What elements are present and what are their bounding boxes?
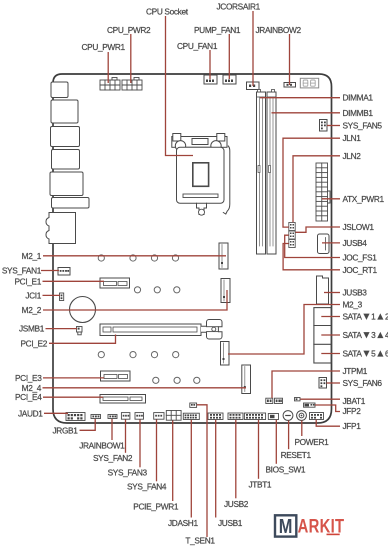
jumper JLN cluster (JLN1/JLN2) bbox=[289, 223, 295, 231]
wire JBAT1 bbox=[300, 398, 340, 400]
wire SYS_FAN6 bbox=[327, 382, 341, 384]
wire PCIE_PWR1 bbox=[172, 421, 174, 502]
debug LED display bbox=[300, 78, 318, 88]
svg-text:JLN2: JLN2 bbox=[343, 151, 362, 161]
PCI_E4 slot bbox=[100, 395, 146, 404]
wire M2_1 bbox=[43, 255, 226, 257]
jumper JSLOW1 header bbox=[289, 231, 295, 239]
wire JCORSAIR1 bbox=[252, 11, 254, 86]
wire JOC_FS1 bbox=[285, 235, 340, 257]
svg-text:JCORSAIR1: JCORSAIR1 bbox=[217, 2, 261, 12]
svg-text:JTBT1: JTBT1 bbox=[249, 479, 272, 489]
mounting holes row C bbox=[98, 352, 179, 358]
wire SYS_FAN4 bbox=[156, 420, 158, 482]
wire JFP1 bbox=[316, 420, 340, 427]
button POWER1 bbox=[297, 411, 307, 421]
DIMM slot DIMMB1 bbox=[267, 90, 276, 255]
connector SYS_FAN3 bbox=[135, 413, 144, 420]
connector JRAINBOW1 bbox=[108, 415, 117, 419]
svg-text:CPU_PWR1: CPU_PWR1 bbox=[82, 42, 126, 52]
connector JUSB3 bbox=[317, 276, 329, 304]
connector JUSB1 bbox=[208, 413, 223, 420]
PCI_E3 slot bbox=[101, 371, 131, 381]
M2_2 slot connector bbox=[221, 279, 230, 303]
wire ATX_PWR1 bbox=[322, 198, 340, 200]
wire JUSB3 bbox=[324, 292, 340, 294]
connector JFP1 bbox=[310, 413, 324, 420]
wire SYS_FAN2 bbox=[125, 420, 127, 453]
svg-text:M2_3: M2_3 bbox=[343, 300, 363, 310]
svg-text:SYS_FAN1: SYS_FAN1 bbox=[2, 266, 42, 276]
wire POWER1 bbox=[301, 421, 303, 437]
svg-text:SYS_FAN2: SYS_FAN2 bbox=[93, 453, 133, 463]
svg-text:SYS_FAN3: SYS_FAN3 bbox=[108, 468, 148, 478]
M2_1 slot connector bbox=[219, 243, 228, 269]
wire SYS_FAN3 bbox=[139, 420, 141, 468]
svg-text:JRAINBOW2: JRAINBOW2 bbox=[256, 25, 302, 35]
svg-text:JUSB2: JUSB2 bbox=[224, 499, 249, 509]
connector JSMB1 bbox=[77, 327, 83, 335]
io port 3 bbox=[51, 127, 80, 147]
wire CPU_PWR1 bbox=[107, 52, 109, 83]
svg-text:POWER1: POWER1 bbox=[295, 437, 330, 447]
connector PCIE_PWR1 bbox=[166, 411, 181, 421]
wire T_SEN1 bbox=[197, 405, 207, 537]
wire SATA56 bbox=[321, 353, 340, 355]
connector CPU_FAN1 bbox=[204, 75, 217, 84]
svg-text:JFP2: JFP2 bbox=[343, 406, 362, 416]
connector JTPM1 bbox=[266, 398, 283, 403]
DIMM slot DIMMA1 bbox=[257, 90, 266, 255]
connector SYS_FAN6 bbox=[319, 378, 327, 389]
wire M2_4 bbox=[43, 387, 247, 389]
logo M bbox=[279, 515, 293, 538]
wire PCI_E4 bbox=[43, 396, 103, 398]
svg-text:JLN1: JLN1 bbox=[343, 133, 362, 143]
wire SATA34 bbox=[321, 334, 340, 336]
connector SYS_FAN1 bbox=[58, 268, 70, 276]
wire JRAINBOW1 bbox=[111, 419, 113, 440]
svg-text:CPU_PWR2: CPU_PWR2 bbox=[107, 25, 151, 35]
wire PCI_E2 bbox=[49, 335, 116, 344]
wire JLN1 bbox=[283, 138, 340, 227]
connector JAUD1 bbox=[66, 413, 85, 421]
io port 4 bbox=[52, 150, 80, 170]
wire PCI_E1 bbox=[43, 280, 105, 282]
svg-text:BIOS_SW1: BIOS_SW1 bbox=[266, 464, 306, 474]
battery bbox=[70, 297, 96, 323]
connector JBAT1 bbox=[295, 398, 301, 401]
svg-text:SATA▼1▲2: SATA▼1▲2 bbox=[343, 311, 388, 322]
wire SYS_FAN1 bbox=[41, 270, 59, 272]
svg-text:JTPM1: JTPM1 bbox=[343, 366, 368, 376]
wire BIOS_SW1 bbox=[275, 420, 277, 464]
svg-text:T_SEN1: T_SEN1 bbox=[185, 536, 215, 546]
PCI_E2 slot bbox=[100, 320, 222, 339]
svg-text:JAUD1: JAUD1 bbox=[18, 408, 43, 418]
connector JUSB4 bbox=[318, 234, 330, 254]
svg-text:JBAT1: JBAT1 bbox=[343, 396, 366, 406]
SATA block bbox=[314, 308, 331, 363]
wire JUSB2 bbox=[235, 420, 237, 499]
wire JTBT1 bbox=[258, 420, 260, 479]
svg-text:JSMB1: JSMB1 bbox=[19, 324, 45, 334]
wire JDASH1 bbox=[190, 420, 192, 518]
logo ARKIT bbox=[298, 514, 345, 537]
mounting holes row A bbox=[98, 255, 178, 261]
wire JAUD1 bbox=[44, 412, 68, 414]
svg-text:PCI_E2: PCI_E2 bbox=[21, 338, 48, 348]
io port 1 bbox=[51, 82, 68, 98]
connector T_SEN1 bbox=[190, 403, 197, 407]
jumper JOC header bbox=[289, 240, 295, 248]
io port 5 bbox=[50, 172, 83, 196]
connector CPU_PWR1 bbox=[100, 78, 120, 91]
switch BIOS_SW1 bbox=[268, 414, 278, 420]
svg-text:JSLOW1: JSLOW1 bbox=[343, 222, 375, 232]
M2_3 slot connector bbox=[221, 342, 230, 366]
connector JUSB2 bbox=[228, 413, 243, 420]
wire JUSB1 bbox=[215, 420, 217, 518]
svg-text:SYS_FAN6: SYS_FAN6 bbox=[343, 378, 383, 388]
wire JOC_RT1 bbox=[283, 244, 340, 270]
svg-text:PCIE_PWR1: PCIE_PWR1 bbox=[133, 502, 179, 512]
wire CPU Socket bbox=[166, 16, 194, 156]
connector SYS_FAN2 bbox=[121, 413, 129, 420]
wire JRAINBOW2 bbox=[289, 34, 291, 85]
wire PUMP_FAN1 bbox=[228, 34, 230, 79]
io port 2 bbox=[51, 100, 78, 123]
svg-text:DIMMA1: DIMMA1 bbox=[343, 93, 374, 103]
svg-text:JUSB3: JUSB3 bbox=[343, 288, 368, 298]
connector JCORSAIR1 bbox=[247, 82, 260, 90]
wire PCI_E3 bbox=[43, 377, 104, 379]
svg-text:JCI1: JCI1 bbox=[25, 290, 41, 300]
wire RESET1 bbox=[288, 421, 290, 450]
connector JDASH1 bbox=[183, 413, 199, 419]
wire DIMMA1 bbox=[260, 97, 340, 99]
CPU socket bbox=[172, 134, 230, 216]
wire JSMB1 bbox=[46, 328, 78, 330]
connector JRAINBOW2 bbox=[284, 83, 296, 88]
connector JTBT1 bbox=[244, 413, 265, 420]
wire JTPM1 bbox=[272, 371, 340, 398]
wire CPU_FAN1 bbox=[209, 50, 211, 79]
svg-text:JOC_FS1: JOC_FS1 bbox=[343, 253, 378, 263]
svg-text:PCI_E1: PCI_E1 bbox=[15, 276, 42, 286]
svg-text:M2_2: M2_2 bbox=[22, 305, 42, 315]
wire SATA12 bbox=[321, 316, 340, 318]
logo underline bbox=[327, 534, 340, 536]
svg-text:SATA▼5▲6: SATA▼5▲6 bbox=[343, 348, 388, 359]
wire SYS_FAN5 bbox=[327, 125, 340, 127]
board outline bbox=[53, 74, 332, 423]
svg-text:JUSB4: JUSB4 bbox=[343, 238, 368, 248]
svg-text:M2_1: M2_1 bbox=[22, 251, 42, 261]
svg-text:RESET1: RESET1 bbox=[281, 450, 312, 460]
svg-text:SYS_FAN4: SYS_FAN4 bbox=[127, 482, 167, 492]
wire DIMMB1 bbox=[272, 112, 341, 114]
svg-text:SYS_FAN5: SYS_FAN5 bbox=[343, 121, 383, 131]
connector CPU_PWR2 bbox=[122, 78, 142, 91]
svg-text:PCI_E4: PCI_E4 bbox=[15, 392, 42, 402]
connector ATX_PWR1 bbox=[316, 163, 330, 221]
connector PUMP_FAN1 bbox=[223, 75, 236, 84]
wire M2_3 bbox=[228, 305, 340, 355]
svg-text:PUMP_FAN1: PUMP_FAN1 bbox=[194, 25, 241, 35]
wire JCI1 bbox=[43, 294, 61, 296]
svg-text:JUSB1: JUSB1 bbox=[218, 518, 243, 528]
wire M2_2 bbox=[43, 290, 227, 310]
PCI_E1 slot bbox=[100, 278, 130, 288]
svg-text:M: M bbox=[279, 515, 293, 538]
svg-text:CPU_FAN1: CPU_FAN1 bbox=[177, 41, 218, 51]
wire CPU_PWR2 bbox=[130, 34, 132, 83]
mounting holes row D bbox=[153, 377, 200, 383]
svg-text:JFP1: JFP1 bbox=[343, 421, 362, 431]
M2_4 slot connector bbox=[242, 365, 251, 394]
svg-text:JOC_RT1: JOC_RT1 bbox=[343, 265, 378, 275]
wire JRGB1 bbox=[80, 419, 96, 430]
button RESET1 bbox=[283, 411, 293, 421]
svg-text:SATA▼3▲4: SATA▼3▲4 bbox=[343, 330, 388, 341]
svg-text:JDASH1: JDASH1 bbox=[168, 518, 198, 528]
io port 7 audio bbox=[46, 213, 76, 244]
svg-text:PCI_E3: PCI_E3 bbox=[15, 373, 42, 383]
mounting holes row B bbox=[134, 287, 180, 293]
svg-text:JRGB1: JRGB1 bbox=[53, 425, 79, 435]
connector SYS_FAN5 bbox=[320, 120, 328, 132]
svg-text:JRAINBOW1: JRAINBOW1 bbox=[79, 441, 125, 451]
connector JCI1 bbox=[60, 293, 64, 301]
wire JSLOW1 bbox=[295, 227, 340, 232]
wire JLN2 bbox=[293, 156, 340, 223]
connector SYS_FAN4 bbox=[154, 413, 164, 420]
svg-text:DIMMB1: DIMMB1 bbox=[343, 108, 374, 118]
connector JFP2 bbox=[304, 403, 316, 407]
MARKIT logo bbox=[275, 514, 344, 537]
wire JUSB4 bbox=[322, 242, 340, 244]
svg-text:CPU Socket: CPU Socket bbox=[146, 7, 189, 17]
io port 6 bbox=[52, 198, 90, 209]
connector JRGB1 bbox=[91, 415, 101, 419]
wire JFP2 bbox=[315, 405, 340, 412]
logo box bbox=[275, 515, 296, 536]
svg-text:ATX_PWR1: ATX_PWR1 bbox=[343, 194, 385, 204]
